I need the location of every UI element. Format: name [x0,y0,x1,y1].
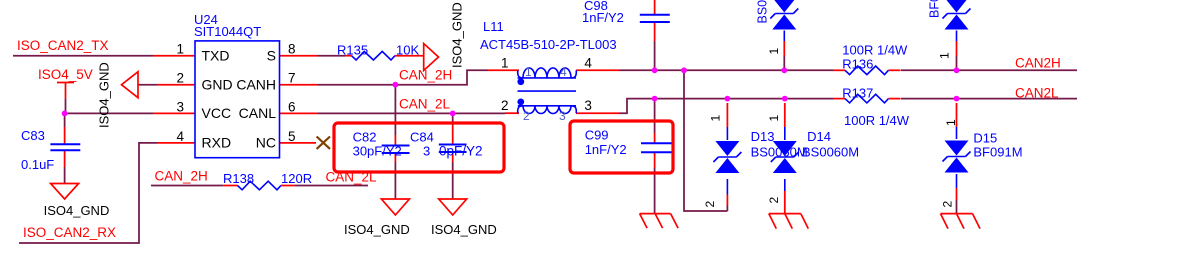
svg-text:CAN_2L: CAN_2L [326,170,378,185]
svg-text:4: 4 [560,65,567,79]
svg-text:BF091M: BF091M [928,0,942,18]
svg-text:3: 3 [559,109,566,123]
svg-text:0.1uF: 0.1uF [21,157,54,172]
svg-text:1: 1 [176,42,184,57]
svg-text:L11: L11 [483,19,504,34]
svg-text:1: 1 [709,115,723,122]
svg-text:ISO_CAN2_TX: ISO_CAN2_TX [17,38,109,53]
svg-text:100R 1/4W: 100R 1/4W [844,113,910,128]
svg-text:CAN_2H: CAN_2H [399,68,452,83]
svg-text:BF091M: BF091M [973,145,1022,160]
svg-text:120R: 120R [281,171,312,186]
svg-text:3: 3 [423,144,430,159]
svg-text:ACT45B-510-2P-TL003: ACT45B-510-2P-TL003 [480,37,617,52]
svg-text:8: 8 [288,42,296,57]
svg-text:ISO4_GND: ISO4_GND [431,222,497,237]
svg-text:2: 2 [941,201,955,208]
svg-text:CANL: CANL [239,105,277,121]
svg-text:3: 3 [176,99,184,114]
svg-text:CAN_2L: CAN_2L [399,97,451,112]
svg-text:1: 1 [501,56,509,71]
svg-text:3: 3 [584,98,592,113]
svg-text:1: 1 [767,48,781,55]
svg-text:2: 2 [523,109,530,123]
svg-text:BS0060M: BS0060M [751,145,808,160]
svg-text:ISO4_GND: ISO4_GND [344,222,410,237]
svg-text:ISO_CAN2_RX: ISO_CAN2_RX [23,225,116,240]
svg-text:2: 2 [767,197,781,204]
svg-text:D15: D15 [973,131,997,146]
svg-text:1: 1 [525,65,532,79]
svg-text:4: 4 [584,56,592,71]
svg-text:4: 4 [176,129,184,144]
svg-text:R137: R137 [842,86,873,101]
svg-text:CAN_2H: CAN_2H [155,169,208,184]
svg-text:2: 2 [703,201,717,208]
svg-text:SIT1044QT: SIT1044QT [194,24,261,39]
svg-text:30pF/Y2: 30pF/Y2 [353,144,402,159]
svg-text:GND: GND [202,77,233,93]
svg-text:6: 6 [288,99,296,114]
svg-text:CAN2H: CAN2H [1015,56,1061,71]
svg-text:7: 7 [288,71,296,86]
svg-text:1: 1 [938,52,952,59]
svg-text:ISO4_GND: ISO4_GND [44,203,110,218]
svg-text:BS0060M: BS0060M [802,145,859,160]
svg-text:C99: C99 [585,128,609,143]
svg-text:D14: D14 [807,129,831,144]
svg-text:R135: R135 [337,42,368,57]
svg-text:C84: C84 [410,130,434,145]
svg-text:CANH: CANH [236,77,276,93]
svg-text:1nF/Y2: 1nF/Y2 [585,142,627,157]
svg-text:C83: C83 [21,128,45,143]
svg-text:S: S [267,48,276,64]
svg-text:RXD: RXD [202,135,232,151]
svg-text:2: 2 [501,98,509,113]
svg-text:1: 1 [944,119,958,126]
svg-text:BS0060M: BS0060M [756,0,770,24]
svg-text:ISO4_GND: ISO4_GND [449,2,464,68]
svg-text:1: 1 [767,115,781,122]
svg-text:2: 2 [176,71,184,86]
svg-text:1nF/Y2: 1nF/Y2 [582,10,624,25]
svg-text:100R 1/4W: 100R 1/4W [842,43,908,58]
svg-text:D13: D13 [751,129,775,144]
svg-text:NC: NC [256,135,276,151]
svg-text:ISO4_GND: ISO4_GND [97,62,112,128]
svg-text:CAN2L: CAN2L [1015,86,1059,101]
svg-text:VCC: VCC [202,105,232,121]
svg-text:TXD: TXD [202,48,230,64]
svg-text:ISO4_5V: ISO4_5V [38,67,93,82]
svg-text:R138: R138 [223,171,254,186]
svg-text:0pF/Y2: 0pF/Y2 [439,144,483,159]
svg-text:10K: 10K [396,42,419,57]
svg-text:R136: R136 [842,57,873,72]
svg-text:5: 5 [288,129,296,144]
svg-text:C82: C82 [353,130,377,145]
